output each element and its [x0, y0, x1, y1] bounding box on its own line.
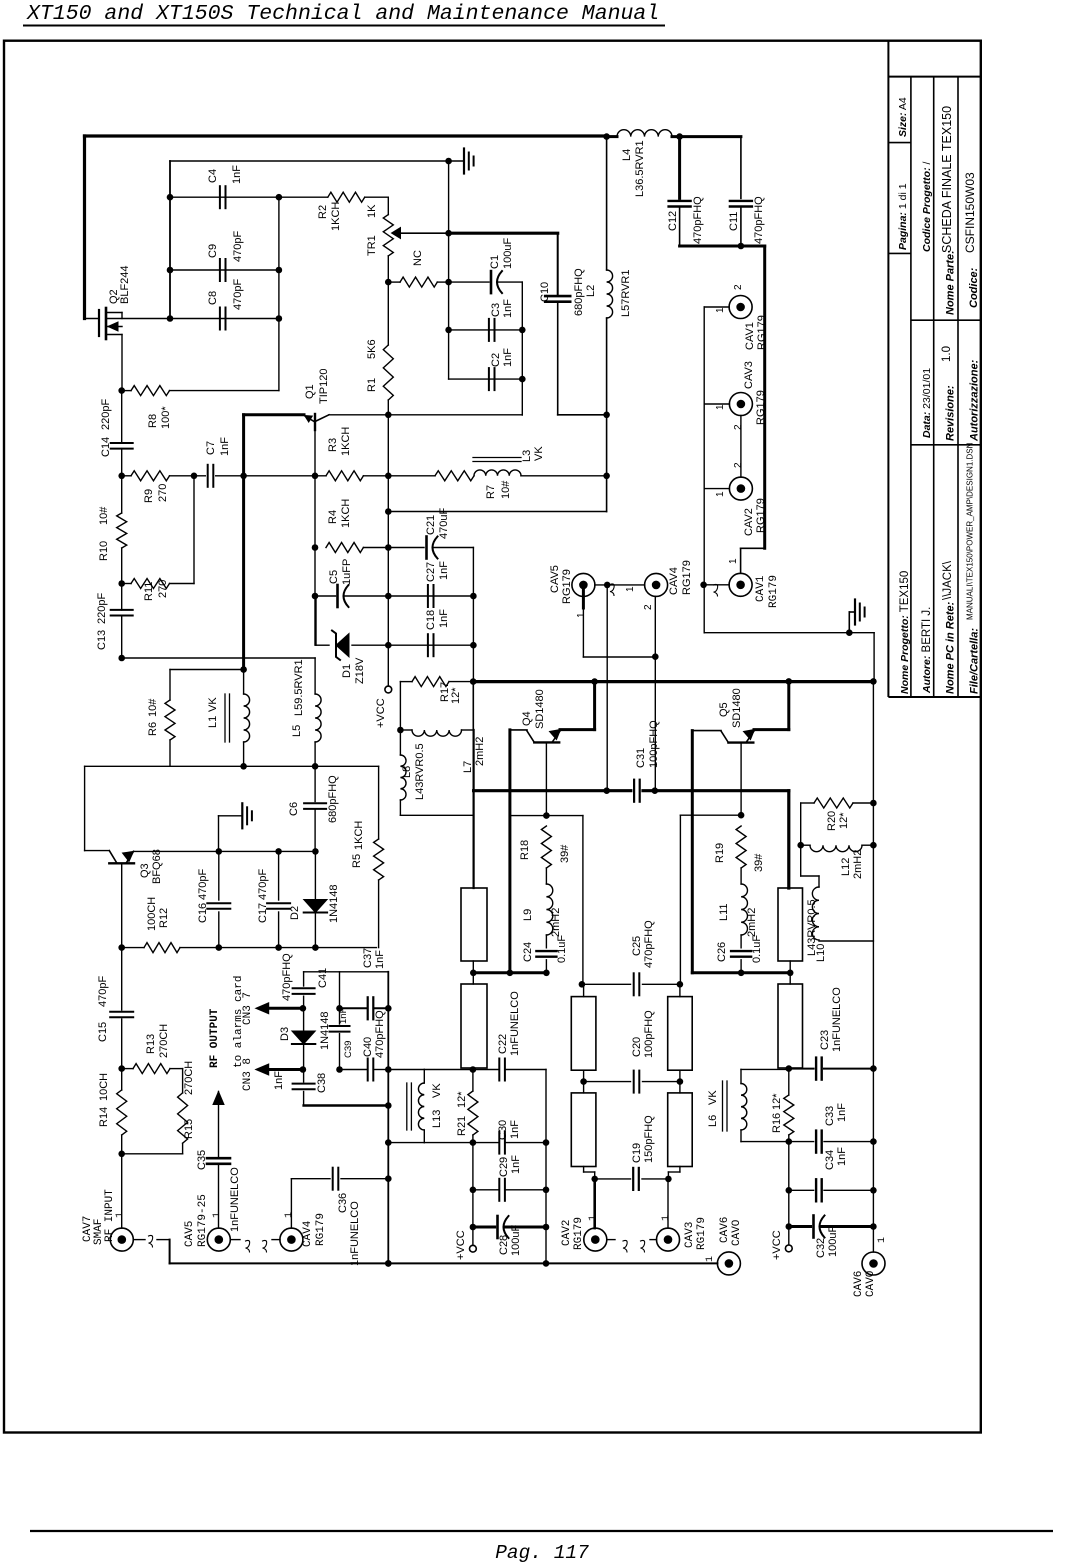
- svg-text:L6: L6: [707, 1115, 719, 1127]
- svg-text:MANUALI\TEX150\POWER_AMP\DESIG: MANUALI\TEX150\POWER_AMP\DESIGN1.DSN: [966, 442, 975, 620]
- svg-text:C20: C20: [631, 1037, 643, 1057]
- svg-text:L8: L8: [401, 766, 413, 778]
- svg-text:CSFIN150W03: CSFIN150W03: [963, 172, 977, 253]
- svg-text:RF INPUT: RF INPUT: [104, 1189, 116, 1242]
- svg-text:470pFHQ: 470pFHQ: [692, 196, 704, 244]
- svg-text:RG179: RG179: [561, 569, 573, 604]
- svg-text:Nome Parte:: Nome Parte:: [945, 250, 957, 315]
- svg-text:R15: R15: [183, 1119, 195, 1139]
- svg-text:CAVO: CAVO: [731, 1219, 743, 1246]
- svg-text:SD1480: SD1480: [534, 689, 546, 729]
- svg-text:470pFHQ: 470pFHQ: [753, 196, 765, 244]
- svg-text:C38: C38: [316, 1073, 328, 1093]
- svg-text:100uF: 100uF: [510, 1225, 522, 1256]
- svg-text:220pF: 220pF: [100, 399, 112, 430]
- svg-text:+VCC: +VCC: [455, 1230, 467, 1260]
- svg-text:VK: VK: [431, 1083, 443, 1098]
- svg-text:1N4148: 1N4148: [328, 884, 340, 923]
- svg-text:TIP120: TIP120: [318, 369, 330, 404]
- svg-text:C8: C8: [207, 291, 219, 305]
- svg-text:C11: C11: [728, 212, 740, 231]
- svg-text:R1: R1: [366, 378, 378, 392]
- svg-text:CAV5: CAV5: [184, 1221, 196, 1247]
- svg-text:BFQ68: BFQ68: [151, 849, 163, 884]
- svg-text:C24: C24: [522, 942, 534, 962]
- svg-text:1N4148: 1N4148: [319, 1011, 331, 1050]
- svg-text:R19: R19: [714, 843, 726, 863]
- svg-text:Q4: Q4: [521, 711, 533, 726]
- svg-text:L4: L4: [621, 149, 633, 161]
- svg-text:CAV4: CAV4: [302, 1220, 314, 1247]
- svg-text:Autore: BERTI J.: Autore: BERTI J.: [921, 607, 933, 694]
- svg-text:L1: L1: [207, 716, 219, 728]
- svg-text:R3: R3: [327, 438, 339, 452]
- svg-text:1uFP: 1uFP: [341, 559, 353, 585]
- svg-text:470pF: 470pF: [257, 869, 269, 900]
- svg-text:12*: 12*: [771, 1093, 783, 1110]
- svg-text:C19: C19: [631, 1143, 643, 1163]
- svg-text:1nFUNELCO: 1nFUNELCO: [831, 987, 843, 1052]
- svg-text:R9: R9: [143, 489, 155, 503]
- svg-text:CAV3: CAV3: [684, 1222, 696, 1248]
- svg-text:C9: C9: [207, 244, 219, 258]
- svg-text:R13: R13: [145, 1034, 157, 1054]
- svg-text:BLF244: BLF244: [119, 265, 131, 304]
- svg-text:C41: C41: [317, 968, 329, 988]
- svg-text:39#: 39#: [559, 844, 571, 863]
- svg-text:100pFHQ: 100pFHQ: [648, 720, 660, 768]
- svg-text:C12: C12: [667, 211, 679, 231]
- svg-text:2mH2: 2mH2: [746, 908, 758, 937]
- svg-text:CAV5: CAV5: [549, 565, 561, 593]
- svg-text:Q1: Q1: [304, 384, 316, 399]
- svg-text:R5: R5: [351, 854, 363, 868]
- svg-text:0.1uF: 0.1uF: [556, 935, 568, 963]
- svg-text:2mH2: 2mH2: [474, 737, 486, 766]
- svg-text:C13: C13: [96, 630, 108, 650]
- svg-text:1K: 1K: [366, 204, 378, 218]
- svg-text:1nF: 1nF: [502, 348, 514, 367]
- svg-text:D2: D2: [289, 906, 301, 920]
- svg-text:C21: C21: [425, 515, 437, 535]
- svg-text:C1: C1: [489, 255, 501, 269]
- svg-text:1: 1: [661, 1215, 672, 1221]
- svg-text:C4: C4: [207, 169, 219, 183]
- svg-text:R10: R10: [98, 541, 110, 561]
- svg-text:R14: R14: [98, 1107, 110, 1127]
- svg-text:C16: C16: [197, 903, 209, 923]
- svg-text:L13: L13: [431, 1110, 443, 1128]
- svg-text:1nF: 1nF: [338, 1007, 349, 1024]
- svg-text:C29: C29: [498, 1157, 510, 1177]
- svg-text:CAVO: CAVO: [865, 1270, 877, 1297]
- svg-text:D3: D3: [279, 1027, 291, 1041]
- svg-text:R8: R8: [147, 414, 159, 428]
- svg-text:470pF: 470pF: [97, 976, 109, 1007]
- svg-text:Nome Progetto: TEX150: Nome Progetto: TEX150: [899, 571, 911, 694]
- svg-text:1: 1: [284, 1212, 295, 1218]
- svg-text:R12: R12: [158, 908, 170, 928]
- svg-text:1nF: 1nF: [438, 609, 450, 628]
- svg-text:Q5: Q5: [718, 702, 730, 717]
- svg-text:1: 1: [576, 612, 587, 618]
- svg-text:1nFUNELCO: 1nFUNELCO: [229, 1167, 241, 1232]
- svg-text:RG179: RG179: [696, 1217, 708, 1250]
- svg-text:L3: L3: [521, 450, 533, 462]
- svg-text:1nF: 1nF: [509, 1120, 521, 1139]
- svg-text:C25: C25: [631, 936, 643, 956]
- svg-text:File/Cartella:: File/Cartella:: [969, 628, 981, 694]
- svg-text:R2: R2: [317, 205, 329, 219]
- svg-text:C26: C26: [716, 942, 728, 962]
- svg-text:Pagina: 1 di 1: Pagina: 1 di 1: [897, 183, 909, 250]
- svg-text:XT150 and XT150S Technical and: XT150 and XT150S Technical and Maintenan…: [26, 2, 659, 26]
- svg-text:470uF: 470uF: [438, 508, 450, 539]
- svg-text:1KCH: 1KCH: [340, 427, 352, 456]
- svg-text:1nFUNELCO: 1nFUNELCO: [509, 991, 521, 1056]
- svg-text:+VCC: +VCC: [771, 1230, 783, 1260]
- svg-text:1nF: 1nF: [502, 299, 514, 318]
- svg-text:R4: R4: [327, 510, 339, 524]
- svg-text:1: 1: [715, 307, 726, 313]
- svg-text:NC: NC: [412, 250, 424, 266]
- svg-text:C17: C17: [257, 903, 269, 923]
- svg-text:2mH2: 2mH2: [550, 908, 562, 937]
- svg-text:470pF: 470pF: [232, 231, 244, 262]
- svg-text:C18: C18: [425, 610, 437, 630]
- svg-text:C40: C40: [362, 1037, 374, 1057]
- svg-text:Data: 23/01/01: Data: 23/01/01: [921, 368, 933, 438]
- svg-text:1: 1: [212, 1212, 223, 1218]
- svg-text:1nF: 1nF: [438, 561, 450, 580]
- svg-text:L43RVR0.5: L43RVR0.5: [414, 743, 426, 800]
- svg-text:Z18V: Z18V: [354, 657, 366, 684]
- svg-text:CAV6: CAV6: [719, 1217, 731, 1243]
- svg-text:1: 1: [877, 1237, 888, 1243]
- svg-text:RG179: RG179: [755, 390, 767, 425]
- svg-text:C34: C34: [824, 1150, 836, 1170]
- svg-text:Size: A4: Size: A4: [897, 97, 909, 137]
- svg-text:1nF: 1nF: [231, 165, 243, 184]
- svg-text:CAV2: CAV2: [561, 1220, 573, 1246]
- svg-text:Codice Progetto: /: Codice Progetto: /: [921, 161, 933, 252]
- svg-text:R16: R16: [771, 1113, 783, 1133]
- svg-text:L57RVR1: L57RVR1: [620, 270, 632, 318]
- svg-text:R21: R21: [456, 1116, 468, 1136]
- svg-text:CAV2: CAV2: [743, 508, 755, 536]
- svg-text:CAV3: CAV3: [743, 361, 755, 389]
- svg-text:100CH: 100CH: [146, 897, 158, 931]
- svg-text:SD1480: SD1480: [731, 688, 743, 728]
- svg-text:C3: C3: [490, 303, 502, 317]
- svg-text:SCHEDA FINALE TEX150: SCHEDA FINALE TEX150: [940, 106, 954, 253]
- svg-text:C27: C27: [425, 562, 437, 582]
- svg-text:1nF: 1nF: [374, 950, 386, 969]
- svg-text:100*: 100*: [160, 406, 172, 429]
- svg-text:2: 2: [733, 462, 744, 468]
- svg-text:Q3: Q3: [139, 863, 151, 878]
- svg-text:1.0: 1.0: [941, 346, 953, 362]
- svg-text:1nFUNELCO: 1nFUNELCO: [349, 1201, 361, 1266]
- svg-text:C6: C6: [288, 802, 300, 816]
- svg-text:470pF: 470pF: [232, 279, 244, 310]
- svg-text:RG179: RG179: [315, 1213, 327, 1246]
- svg-text:CAV4: CAV4: [668, 567, 680, 595]
- svg-text:2: 2: [733, 284, 744, 290]
- svg-text:C15: C15: [97, 1022, 109, 1042]
- svg-text:1KCH: 1KCH: [340, 499, 352, 528]
- svg-text:D1: D1: [341, 664, 353, 678]
- svg-text:R7: R7: [485, 485, 497, 499]
- svg-text:Pag. 117: Pag. 117: [495, 1542, 589, 1564]
- svg-text:C28: C28: [498, 1235, 510, 1255]
- svg-text:1: 1: [715, 404, 726, 410]
- svg-text:1: 1: [715, 491, 726, 497]
- svg-text:+VCC: +VCC: [375, 698, 387, 728]
- svg-text:L12: L12: [840, 858, 852, 876]
- svg-text:1: 1: [588, 1215, 599, 1221]
- svg-text:C30: C30: [497, 1120, 509, 1140]
- svg-text:RG179: RG179: [768, 575, 780, 608]
- svg-text:C33: C33: [824, 1106, 836, 1126]
- svg-text:680pFHQ: 680pFHQ: [327, 775, 339, 823]
- svg-text:100pFHQ: 100pFHQ: [643, 1010, 655, 1058]
- svg-text:C36: C36: [337, 1193, 349, 1213]
- svg-text:C7: C7: [205, 441, 217, 455]
- svg-text:C2: C2: [490, 353, 502, 367]
- svg-text:270: 270: [157, 580, 169, 598]
- svg-text:1: 1: [705, 1256, 716, 1262]
- svg-text:L59.5RVR1: L59.5RVR1: [293, 659, 305, 716]
- svg-text:RG179: RG179: [755, 498, 767, 533]
- svg-text:C22: C22: [497, 1034, 509, 1054]
- svg-text:VK: VK: [533, 446, 545, 461]
- svg-text:C35: C35: [196, 1150, 208, 1170]
- svg-text:100uF: 100uF: [502, 238, 514, 269]
- svg-text:12*: 12*: [838, 812, 850, 829]
- svg-text:150pFHQ: 150pFHQ: [643, 1115, 655, 1163]
- svg-text:CN3 8: CN3 8: [242, 1058, 254, 1091]
- svg-text:470pFHQ: 470pFHQ: [643, 920, 655, 968]
- svg-text:12*: 12*: [450, 687, 462, 704]
- svg-text:TR1: TR1: [366, 235, 378, 256]
- svg-text:C37: C37: [362, 948, 374, 968]
- svg-text:C31: C31: [635, 748, 647, 768]
- svg-text:1: 1: [115, 1212, 126, 1218]
- svg-text:1nF: 1nF: [219, 437, 231, 456]
- svg-text:C32: C32: [815, 1238, 827, 1258]
- svg-text:CN3 7: CN3 7: [242, 992, 254, 1025]
- svg-text:C14: C14: [100, 437, 112, 457]
- svg-text:100uF: 100uF: [827, 1226, 839, 1257]
- svg-text:1nF: 1nF: [836, 1103, 848, 1122]
- svg-text:680pFHQ: 680pFHQ: [573, 268, 585, 316]
- svg-text:10#: 10#: [147, 698, 159, 717]
- svg-text:270CH: 270CH: [158, 1024, 170, 1058]
- svg-text:Nome PC in Rete:: Nome PC in Rete:: [945, 601, 957, 694]
- svg-text:C5: C5: [328, 570, 340, 584]
- svg-text:10#: 10#: [500, 480, 512, 499]
- svg-text:2: 2: [643, 604, 654, 610]
- svg-text:1nF: 1nF: [273, 1071, 285, 1090]
- svg-text:1: 1: [625, 586, 636, 592]
- svg-text:39#: 39#: [753, 853, 765, 872]
- svg-text:RG179: RG179: [756, 315, 768, 350]
- svg-text:CAV6: CAV6: [853, 1271, 865, 1297]
- svg-text:CAV1: CAV1: [744, 322, 756, 350]
- svg-text:2mH2: 2mH2: [852, 850, 864, 879]
- svg-text:R11: R11: [143, 582, 155, 601]
- svg-text:C10: C10: [539, 282, 551, 302]
- svg-text:1: 1: [728, 558, 739, 564]
- svg-text:L11: L11: [718, 903, 730, 921]
- svg-text:10#: 10#: [98, 506, 110, 525]
- svg-text:Revisione:: Revisione:: [945, 385, 957, 441]
- svg-text:1KCH: 1KCH: [330, 202, 342, 231]
- svg-text:L10: L10: [815, 944, 827, 962]
- svg-text:5K6: 5K6: [366, 339, 378, 359]
- svg-text:R6: R6: [147, 722, 159, 736]
- svg-text:R18: R18: [519, 840, 531, 860]
- svg-text:Codice:: Codice:: [968, 267, 980, 308]
- svg-text:L2: L2: [585, 285, 597, 297]
- svg-text:L9: L9: [522, 909, 534, 921]
- svg-text:1KCH: 1KCH: [353, 821, 365, 850]
- svg-text:220pF: 220pF: [96, 593, 108, 624]
- svg-text:1nF: 1nF: [836, 1147, 848, 1166]
- svg-text:470pFHQ: 470pFHQ: [281, 953, 293, 1001]
- svg-text:RG179: RG179: [573, 1217, 585, 1250]
- svg-text:10CH: 10CH: [98, 1073, 110, 1101]
- svg-text:470pF: 470pF: [197, 869, 209, 900]
- svg-text:L5: L5: [291, 725, 303, 737]
- svg-text:270: 270: [157, 484, 169, 502]
- svg-text:C23: C23: [819, 1030, 831, 1050]
- svg-text:Autorizzazione:: Autorizzazione:: [969, 359, 981, 442]
- svg-text:VK: VK: [207, 697, 219, 712]
- svg-text:RG179: RG179: [681, 560, 693, 595]
- svg-text:270CH: 270CH: [183, 1061, 195, 1095]
- svg-text:L36.5RVR1: L36.5RVR1: [634, 140, 646, 197]
- svg-text:\\JACK\: \\JACK\: [942, 560, 954, 600]
- svg-text:470pFHQ: 470pFHQ: [374, 1010, 386, 1058]
- svg-text:1nF: 1nF: [510, 1155, 522, 1174]
- svg-text:RG179-25: RG179-25: [197, 1194, 209, 1247]
- svg-text:RF OUTPUT: RF OUTPUT: [209, 1008, 221, 1068]
- svg-text:R20: R20: [826, 811, 838, 831]
- svg-text:C39: C39: [343, 1041, 354, 1058]
- svg-text:0.1uF: 0.1uF: [751, 935, 763, 963]
- svg-text:CAV1: CAV1: [755, 575, 767, 602]
- svg-text:12*: 12*: [456, 1091, 468, 1108]
- svg-text:2: 2: [733, 424, 744, 430]
- svg-text:L7: L7: [462, 761, 474, 773]
- svg-text:VK: VK: [707, 1090, 719, 1105]
